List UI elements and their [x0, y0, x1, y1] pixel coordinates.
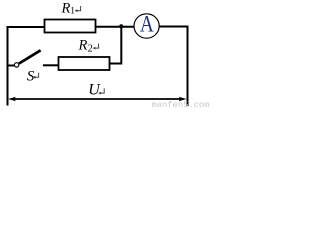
svg-text:A: A: [140, 11, 155, 37]
svg-text:R: R: [61, 0, 71, 16]
svg-text:2: 2: [88, 44, 93, 55]
svg-text:U: U: [88, 81, 101, 98]
svg-text:1: 1: [70, 7, 75, 17]
svg-text:S: S: [27, 69, 35, 85]
svg-text:R: R: [78, 37, 88, 53]
svg-text:manfen5.com: manfen5.com: [152, 100, 210, 109]
